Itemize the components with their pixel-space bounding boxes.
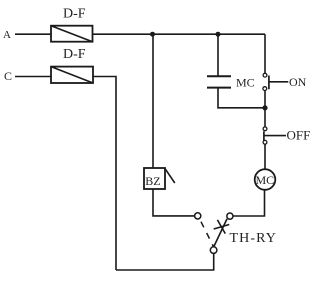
wire top bus from fuse A to right corner	[93, 33, 266, 35]
wire MC aux contact bottom to junction	[218, 88, 265, 108]
svg-text:TH-RY: TH-RY	[230, 231, 278, 246]
svg-text:C: C	[4, 69, 12, 83]
svg-text:MC: MC	[256, 173, 275, 187]
contactor coil MC	[255, 169, 276, 190]
junction dot (ON / aux contact meet)	[262, 105, 267, 110]
TH-RY trip cross stroke 2	[217, 220, 225, 234]
svg-text:OFF: OFF	[287, 128, 311, 143]
junction dot (capacitor/aux contact branch on top bus)	[216, 32, 221, 37]
svg-text:ON: ON	[289, 75, 307, 89]
wire C lead-in	[15, 76, 51, 78]
fuse D-F (phase A)	[51, 26, 93, 42]
junction dot (BZ branch on top bus)	[150, 32, 155, 37]
pushbutton OFF (NC)	[263, 127, 286, 144]
svg-text:MC: MC	[236, 75, 255, 89]
pushbutton ON (NO)	[263, 73, 288, 90]
wire C to left riser	[93, 77, 116, 271]
wire junction to OFF button	[264, 108, 266, 127]
TH-RY common terminal	[210, 247, 217, 254]
buzzer BZ	[144, 168, 175, 189]
wire A lead-in	[15, 33, 51, 35]
wire coil bottom to TH-RY right contact	[233, 190, 264, 216]
wire bottom return	[116, 253, 214, 270]
svg-text:D-F: D-F	[63, 7, 86, 22]
wire MC aux contact top	[217, 34, 219, 76]
fuse D-F (phase C)	[51, 67, 93, 83]
TH-RY dashed arm (to BZ side)	[200, 219, 213, 246]
svg-text:D-F: D-F	[63, 47, 86, 62]
wire ON branch drop	[264, 34, 266, 73]
TH-RY trip cross stroke 1	[214, 225, 230, 230]
wire BZ branch drop	[152, 34, 154, 168]
TH-RY right contact terminal	[227, 213, 233, 219]
svg-text:A: A	[3, 29, 11, 41]
TH-RY solid arm (to MC side)	[214, 219, 227, 247]
wire ON bottom to junction	[264, 91, 266, 109]
TH-RY left contact terminal	[195, 213, 201, 219]
wire OFF to coil	[264, 144, 266, 169]
wire BZ bottom to TH-RY left contact	[153, 189, 195, 216]
MC auxiliary contact (holding contact)	[207, 76, 231, 87]
svg-text:BZ: BZ	[145, 174, 160, 188]
